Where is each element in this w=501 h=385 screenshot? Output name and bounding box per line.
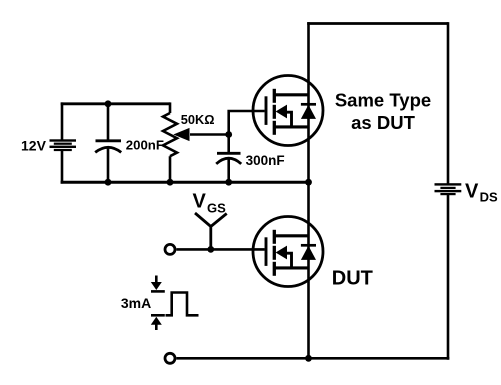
wire gate Q2 [176, 248, 264, 251]
label Same Type as DUT [335, 90, 431, 133]
wire 200nF top lead [107, 104, 110, 141]
pot wiper arrow [173, 128, 228, 141]
wire left loop top rail [61, 102, 170, 105]
wire 300nF bottom lead [227, 159, 230, 183]
svg-text:V: V [465, 180, 479, 202]
svg-text:Same Type: Same Type [335, 90, 431, 111]
wire bottom rail [176, 357, 449, 360]
wire wiper to gate Q1 [229, 111, 265, 135]
junction dot wiper [225, 131, 232, 138]
svg-text:200nF: 200nF [126, 138, 164, 153]
wire left vertical lower [61, 151, 64, 184]
capacitor 200nF [95, 141, 121, 153]
junction dot mid rail [305, 179, 312, 186]
svg-text:V: V [193, 191, 207, 213]
battery 12V [50, 139, 77, 151]
junction dot bottom rail [305, 355, 312, 362]
svg-text:300nF: 300nF [246, 153, 285, 168]
probe VGS [195, 213, 227, 249]
wire left loop bottom rail [61, 181, 309, 184]
battery VDS [435, 183, 462, 195]
wire 300nF top lead [227, 135, 230, 154]
waveform pulse [166, 293, 199, 316]
svg-text:GS: GS [207, 201, 226, 216]
junction dot VGS probe [207, 246, 214, 253]
junction dot 200nF bottom [105, 179, 112, 186]
capacitor 300nF [216, 153, 241, 164]
wire right rail upper [447, 22, 450, 184]
svg-text:DS: DS [480, 190, 498, 205]
wire 200nF bottom lead [107, 147, 110, 182]
label VGS [193, 191, 227, 216]
junction dot 300nF bottom [225, 179, 232, 186]
junction dot 200nF top [105, 100, 112, 107]
svg-text:50KΩ: 50KΩ [181, 112, 215, 127]
transistor Q1 same type [253, 76, 323, 146]
svg-text:3mA: 3mA [121, 295, 151, 311]
annotation 3mA pulse [151, 276, 165, 331]
terminal bottom-left open circle [165, 353, 175, 363]
svg-text:DUT: DUT [332, 268, 373, 290]
wire left vertical upper [61, 102, 64, 140]
transistor Q2 DUT [253, 217, 323, 287]
svg-text:12V: 12V [21, 137, 47, 153]
resistor 50K pot [163, 102, 177, 183]
label VDS [465, 180, 498, 204]
terminal VGS open circle [165, 244, 175, 254]
wire top rail [307, 22, 448, 25]
svg-text:as DUT: as DUT [351, 112, 415, 133]
junction dot pot bottom [167, 179, 174, 186]
wire main vertical rail [307, 22, 310, 358]
wire right rail lower [447, 194, 450, 360]
